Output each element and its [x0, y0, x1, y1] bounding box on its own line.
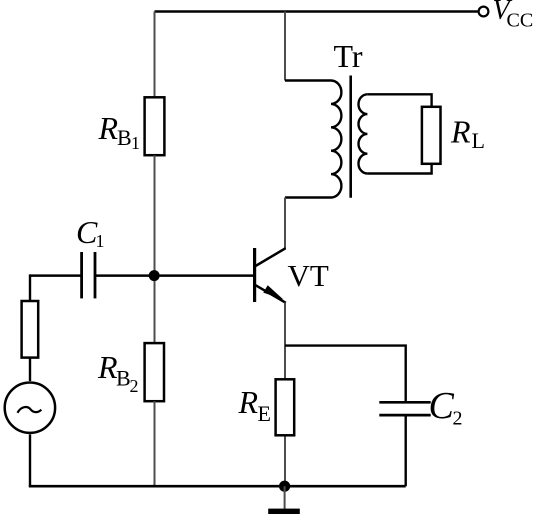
transformer secondary winding — [359, 94, 368, 173]
transistor VT emitter lead — [256, 285, 286, 303]
svg-text:1: 1 — [96, 231, 105, 251]
wire ground stub — [284, 486, 286, 509]
capacitor C2 — [379, 402, 430, 415]
wire emitter branch to C2 — [285, 346, 406, 402]
svg-text:2: 2 — [453, 408, 463, 430]
label C1 — [76, 214, 105, 251]
source tilde — [18, 407, 42, 413]
source AC signal generator — [5, 383, 55, 433]
wire emitter down — [284, 303, 286, 487]
wire collector upper — [284, 198, 286, 250]
svg-text:2: 2 — [130, 376, 139, 396]
svg-text:E: E — [258, 401, 271, 426]
resistor source internal — [22, 301, 39, 358]
label RE — [238, 384, 271, 426]
wire C1 to source branch — [30, 274, 82, 277]
label C2 — [429, 385, 463, 430]
wire secondary bottom lead — [367, 164, 431, 174]
svg-text:R: R — [98, 110, 119, 146]
node base junction dot — [149, 270, 160, 281]
svg-text:C: C — [429, 385, 455, 427]
resistor RL — [422, 107, 441, 164]
wire from rail down to RB1 — [154, 12, 156, 98]
label RB2 — [97, 349, 139, 396]
svg-text:R: R — [97, 349, 118, 385]
transistor VT base bar — [253, 248, 256, 302]
svg-text:CC: CC — [507, 9, 534, 31]
svg-text:R: R — [238, 384, 259, 420]
wire secondary top lead — [367, 94, 431, 107]
svg-text:Tr: Tr — [334, 38, 363, 74]
capacitor C1 — [82, 252, 95, 298]
svg-text:R: R — [450, 113, 471, 149]
resistor RE — [276, 379, 295, 435]
svg-text:VT: VT — [288, 258, 329, 293]
svg-text:B: B — [117, 125, 132, 150]
resistor RB2 — [145, 343, 164, 401]
wire base horizontal — [95, 274, 253, 277]
wire from rail down to transformer primary — [284, 12, 286, 81]
wire top supply rail — [155, 10, 478, 13]
wire RB1 to RB2 through base node — [154, 155, 156, 343]
ground — [268, 509, 300, 514]
node label VCC — [493, 0, 534, 31]
wire bottom rail — [29, 485, 406, 488]
wire left branch down — [29, 274, 31, 301]
wire primary top lead — [285, 79, 331, 81]
wire source to bottom rail — [29, 434, 31, 486]
wire primary bottom lead — [285, 196, 331, 198]
wire C2 to bottom rail — [405, 415, 407, 486]
transformer Tr primary winding — [331, 81, 341, 198]
transformer core — [349, 76, 352, 198]
svg-text:1: 1 — [131, 133, 140, 153]
svg-text:L: L — [472, 128, 485, 153]
label RB1 — [98, 110, 141, 153]
svg-text:B: B — [116, 366, 131, 391]
label RL — [450, 113, 485, 152]
node ground junction dot — [279, 481, 290, 492]
wire resistor to source — [29, 358, 31, 381]
transistor VT emitter arrow — [263, 285, 283, 299]
wire RB2 to bottom rail — [154, 401, 156, 486]
resistor RB1 — [145, 97, 165, 155]
transistor VT collector lead — [256, 248, 286, 266]
node VCC terminal circle — [479, 7, 489, 17]
